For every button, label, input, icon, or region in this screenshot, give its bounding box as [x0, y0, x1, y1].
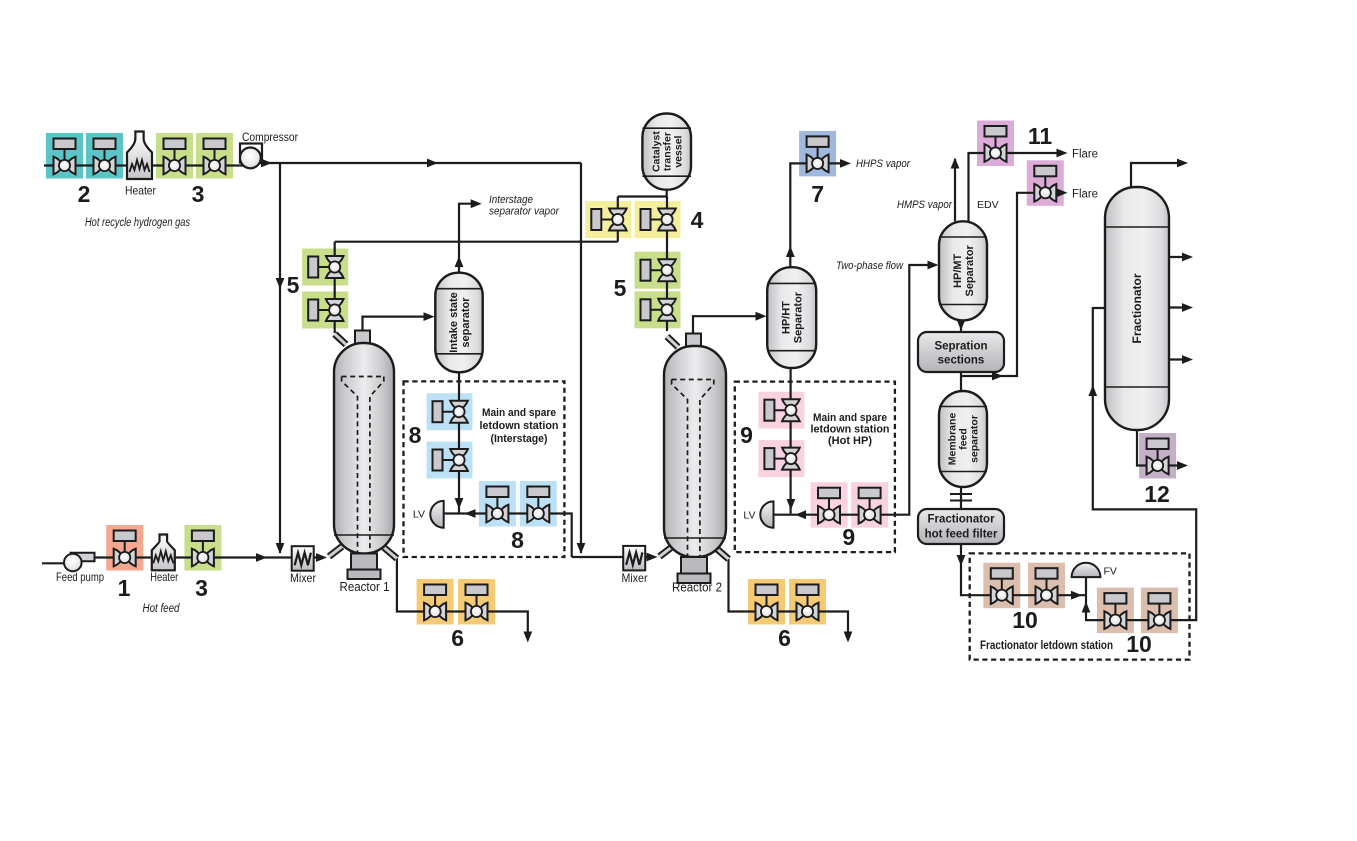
arrow valve-12 outlet: [1177, 461, 1188, 470]
reactor 2 internals dashed funnel: [672, 380, 714, 560]
valve 6b background: [458, 579, 495, 625]
svg-text:letdown station: letdown station: [480, 420, 559, 432]
pipe letdown-10 second row: [1086, 308, 1196, 620]
valve 4a background: [585, 201, 631, 238]
valve 9a background: [758, 392, 804, 429]
svg-text:Feed pump: Feed pump: [56, 570, 104, 584]
pipe HP/HT bottoms: [789, 368, 791, 514]
svg-text:10: 10: [1012, 607, 1038, 633]
pipe hydrogen branch 5 down to reactor-1 feed: [279, 163, 281, 553]
valve 1 background: [106, 525, 143, 571]
HP/HT separator vessel: [767, 267, 816, 368]
valve 4b: [641, 209, 676, 231]
svg-text:6: 6: [451, 625, 464, 651]
arrow hydrogen into reactor-2 feed: [577, 543, 586, 554]
pipe sepration sections to membrane separator: [960, 372, 962, 391]
pipe valve column to reactor 2: [666, 197, 668, 332]
pipe HP/MT bottoms to sepration sections: [960, 320, 962, 332]
fractionator hot feed filter box: [918, 509, 1004, 544]
svg-text:Heater: Heater: [150, 570, 178, 584]
svg-text:8: 8: [409, 422, 422, 448]
valve 2b: [94, 139, 116, 175]
arrow into intake separator: [424, 312, 435, 321]
valve 8b background: [427, 442, 473, 479]
pipe HMPS vapor riser: [954, 159, 956, 221]
reactor 2 bottom nozzle: [678, 557, 711, 583]
svg-text:3: 3: [195, 575, 208, 601]
svg-text:Two-phase flow: Two-phase flow: [836, 260, 904, 272]
valve 8a background: [427, 393, 473, 430]
pipe filter to letdown-10: [961, 544, 1086, 595]
svg-text:3: 3: [192, 181, 205, 207]
pipe reactor-2 feed line: [572, 556, 652, 558]
valve 7: [807, 136, 829, 172]
pipe valve-4 tee: [618, 195, 667, 197]
intake state separator vessel: [435, 273, 482, 373]
svg-text:HP/HT: HP/HT: [781, 301, 793, 334]
svg-text:Interstage: Interstage: [489, 194, 533, 206]
arrow two-phase flow: [928, 261, 939, 270]
nozzle reactor-1 bottoms outlet: [384, 548, 397, 559]
valve 7 background: [799, 131, 836, 177]
pipe letdown-9 header: [774, 265, 935, 515]
svg-text:separator vapor: separator vapor: [489, 206, 560, 218]
compressor: [240, 144, 262, 169]
svg-text:Separator: Separator: [793, 291, 805, 343]
filter tick upper: [950, 493, 972, 495]
valve 12 background: [1139, 433, 1176, 479]
pipe HP/HT overhead to valve 7: [790, 163, 806, 267]
svg-text:separator: separator: [460, 297, 472, 348]
svg-text:Intake state: Intake state: [448, 292, 460, 353]
valve 9d: [859, 488, 881, 524]
valve 8d: [527, 487, 549, 523]
arrow hydrogen header mid: [427, 159, 438, 168]
pipe quench drop to reactor 1: [334, 242, 336, 333]
valve 9c: [818, 488, 840, 524]
pipe interstage separator vapor line: [459, 204, 477, 273]
valve 2a background: [46, 133, 83, 179]
svg-text:Mixer: Mixer: [290, 571, 316, 585]
valve 5c background: [635, 252, 681, 289]
valve 3c background: [184, 525, 221, 571]
pipe intake separator bottoms: [458, 372, 460, 513]
valve 10c: [1104, 593, 1126, 629]
arrow flare 2: [1057, 188, 1068, 197]
svg-text:vessel: vessel: [672, 135, 684, 167]
valve 8d background: [520, 481, 557, 527]
valve 10b background: [1028, 563, 1065, 609]
valve 6c background: [748, 579, 785, 625]
valve 2b background: [86, 133, 123, 179]
pipe EDV riser to valve 11: [969, 153, 985, 221]
nozzle reactor-1 feed inlet: [329, 547, 342, 557]
svg-text:Fractionator letdown station: Fractionator letdown station: [980, 640, 1113, 652]
svg-text:HHPS vapor: HHPS vapor: [856, 158, 911, 170]
arrow hydrogen branch into feed 1: [276, 543, 285, 554]
svg-text:sections: sections: [938, 355, 985, 367]
fractionator letdown station dashed box: [970, 553, 1190, 659]
valve 6a: [424, 585, 446, 621]
svg-text:7: 7: [811, 181, 824, 207]
svg-text:Reactor 2: Reactor 2: [672, 581, 722, 595]
svg-text:Hot recycle hydrogen gas: Hot recycle hydrogen gas: [85, 217, 190, 229]
arrow valves-6 left outlet: [523, 632, 532, 643]
svg-text:(Hot HP): (Hot HP): [828, 435, 872, 447]
reactor 1 bottom nozzle: [348, 554, 381, 580]
svg-text:2: 2: [78, 181, 91, 207]
valve 8c: [486, 487, 508, 523]
valve 3b: [204, 139, 226, 175]
arrow feed into reactor 1: [316, 553, 327, 562]
nozzle reactor-2 bottoms outlet: [717, 549, 729, 560]
valve 5a: [308, 256, 343, 278]
svg-text:Flare: Flare: [1072, 189, 1098, 201]
valve 9d background: [851, 482, 888, 528]
pipe hydrogen branch down to reactor-2 feed: [580, 163, 582, 553]
reactor 1 internals dashed funnel: [342, 377, 384, 557]
valve 12: [1147, 439, 1169, 475]
arrow compressor discharge: [261, 159, 272, 168]
valve 6c: [756, 585, 778, 621]
pipe valve-12 outlet: [1169, 464, 1183, 466]
arrow HP/HT overhead riser: [786, 246, 795, 257]
valve 5b background: [302, 292, 348, 329]
svg-text:LV: LV: [743, 510, 755, 522]
filter tick lower: [950, 500, 972, 502]
valve 3b background: [196, 133, 233, 179]
valve 6d background: [789, 579, 826, 625]
arrow fractionator draw 3: [1182, 355, 1193, 364]
reactor 1 vessel: [334, 343, 394, 554]
svg-text:Hot feed: Hot feed: [143, 603, 181, 615]
reactor 2 vessel: [664, 346, 726, 557]
arrow fractionator overhead: [1177, 159, 1188, 168]
pipe valve-4a drop: [617, 197, 619, 242]
nozzle reactor-2 feed inlet: [660, 547, 673, 557]
svg-text:Fractionator: Fractionator: [1130, 273, 1144, 343]
svg-text:6: 6: [778, 625, 791, 651]
mixer 1: [290, 546, 316, 585]
pipe fractionator side draw 1: [1169, 256, 1188, 258]
valve 8b: [433, 449, 468, 471]
valve 3a background: [156, 133, 193, 179]
svg-text:LV: LV: [413, 509, 425, 521]
fractionator vessel: [1105, 187, 1169, 430]
arrow letdown-10 riser: [1082, 602, 1091, 613]
arrow HMPS vapor: [951, 158, 960, 169]
svg-text:1: 1: [118, 575, 131, 601]
svg-text:9: 9: [740, 422, 753, 448]
svg-text:Fractionator: Fractionator: [927, 514, 995, 526]
svg-text:hot feed filter: hot feed filter: [925, 529, 998, 541]
arrow into sepration sections: [957, 320, 966, 331]
pipe hot recycle hydrogen discharge header: [250, 162, 581, 164]
valve 10c background: [1097, 588, 1134, 634]
valve 5d background: [635, 291, 681, 328]
valve 8c background: [479, 481, 516, 527]
valve 6a background: [417, 579, 454, 625]
valve 3c: [192, 531, 214, 567]
arrow flare 1: [1057, 149, 1068, 158]
feed pump: [64, 553, 95, 572]
arrow HHPS vapor: [840, 159, 851, 168]
valve 5b: [308, 299, 343, 321]
valve 3a: [164, 139, 186, 175]
svg-text:HP/MT: HP/MT: [952, 253, 964, 288]
arrow letdown-8 drop: [455, 498, 464, 509]
arrow into HP/HT separator: [756, 312, 767, 321]
svg-text:8: 8: [511, 527, 524, 553]
FV dome letdown 10: [1072, 563, 1101, 577]
arrow fractionator feed riser: [1088, 385, 1097, 396]
pipe fractionator side draw 3: [1169, 358, 1188, 360]
valve 5c: [641, 259, 676, 281]
svg-text:Main and spare: Main and spare: [482, 407, 556, 419]
pipe reactor-1 overhead to intake separator: [363, 317, 431, 343]
arrow letdown-9 drop: [787, 499, 796, 510]
arrow letdown-10 row 1: [1071, 591, 1082, 600]
valve 9c background: [811, 482, 848, 528]
svg-text:12: 12: [1144, 481, 1170, 507]
LV dome letdown 9: [760, 501, 773, 527]
valve flare: [1034, 166, 1056, 202]
svg-text:11: 11: [1028, 123, 1053, 149]
arrow into letdown 10: [957, 555, 966, 566]
svg-text:4: 4: [691, 207, 704, 233]
arrow fractionator draw 2: [1182, 303, 1193, 312]
LV dome letdown 8: [430, 501, 443, 528]
arrow letdown-8 header: [465, 509, 476, 518]
pipe quench header y242: [335, 241, 618, 243]
valve flare background: [1027, 160, 1064, 206]
valve 10d background: [1141, 588, 1178, 634]
arrow interstage vapor: [471, 199, 482, 208]
svg-text:5: 5: [287, 272, 300, 298]
pipe fractionator side draw 2: [1169, 306, 1188, 308]
svg-text:5: 5: [614, 275, 627, 301]
svg-text:Heater: Heater: [125, 184, 156, 198]
nozzle reactor-1 quench inlet: [335, 334, 346, 345]
arrow interstage vapor riser: [455, 256, 464, 267]
pipe HHPS vapor outlet: [829, 162, 846, 164]
svg-text:Main and spare: Main and spare: [813, 412, 887, 424]
valve 8a: [433, 401, 468, 423]
svg-text:FV: FV: [1104, 566, 1117, 578]
letdown station 8 dashed box: [404, 381, 565, 557]
arrow hydrogen branch mid: [276, 278, 285, 289]
reactor 2 top nozzle: [686, 334, 701, 347]
svg-text:9: 9: [842, 524, 855, 550]
valve 5d: [641, 299, 676, 321]
pipe fractionator overhead: [1131, 163, 1183, 187]
pipe reactor-1 bottoms to valves 6: [397, 558, 528, 638]
mixer 2: [622, 546, 648, 585]
pipe valve-11 flare outlet: [1007, 152, 1063, 154]
valve 5a background: [302, 249, 348, 286]
arrow letdown-9 header: [795, 510, 806, 519]
svg-text:Mixer: Mixer: [622, 571, 648, 585]
valve 10b: [1036, 568, 1058, 604]
valve 10a: [991, 568, 1013, 604]
svg-text:Compressor: Compressor: [242, 130, 298, 144]
membrane feed separator vessel: [939, 391, 987, 487]
valve 9a: [764, 399, 799, 421]
pipe catalyst vessel stub: [666, 190, 668, 197]
svg-text:EDV: EDV: [977, 199, 999, 211]
valve 4a: [591, 209, 626, 231]
svg-text:Separator: Separator: [964, 244, 976, 296]
valve 6b: [466, 585, 488, 621]
valve 11: [985, 126, 1007, 162]
svg-text:(Interstage): (Interstage): [491, 433, 548, 445]
svg-text:Flare: Flare: [1072, 149, 1098, 161]
valve 10d: [1148, 593, 1170, 629]
nozzle reactor-2 quench inlet: [667, 337, 678, 348]
HP/MT separator vessel: [939, 221, 987, 320]
valve 4b background: [635, 201, 681, 238]
svg-text:10: 10: [1126, 631, 1152, 657]
valve 10a background: [983, 563, 1020, 609]
valve 11 background: [977, 121, 1014, 167]
heater hot feed line: [150, 535, 178, 585]
valve 9b background: [758, 440, 804, 477]
arrow flare branch: [992, 372, 1003, 381]
pipe membrane separator bottoms: [960, 487, 962, 509]
valve 2a: [54, 139, 76, 175]
pipe FV riser: [1085, 577, 1087, 595]
pipe fractionator bottoms to valve 12: [1137, 430, 1147, 466]
pipe flare valve outlet: [1056, 192, 1063, 194]
letdown station 9 dashed box: [735, 382, 895, 552]
arrow feed into reactor 2: [647, 553, 658, 562]
sepration sections box: [918, 332, 1004, 372]
heater hydrogen line: [125, 132, 156, 198]
reactor 1 top nozzle: [355, 331, 370, 344]
pipe flare valve riser: [961, 193, 1034, 376]
pipe hot recycle hydrogen suction header: [44, 164, 250, 166]
arrow fractionator draw 1: [1182, 253, 1193, 262]
svg-text:separator: separator: [969, 415, 981, 463]
svg-text:letdown station: letdown station: [811, 424, 890, 436]
pipe letdown-8 header: [444, 514, 572, 558]
pipe reactor-2 overhead to HP/HT separator: [693, 316, 761, 346]
pipe feed pump suction: [42, 562, 66, 564]
valve 1: [114, 531, 136, 567]
valve 9b: [764, 448, 799, 470]
svg-text:Sepration: Sepration: [934, 341, 987, 353]
pipe hot feed line to reactor 1: [90, 556, 324, 558]
valve 6d: [797, 585, 819, 621]
arrow valves-6 right outlet: [844, 632, 853, 643]
svg-text:Reactor 1: Reactor 1: [340, 580, 390, 594]
svg-text:HMPS vapor: HMPS vapor: [897, 199, 953, 211]
arrow feed line: [256, 553, 267, 562]
catalyst transfer vessel: [642, 114, 691, 190]
pipe reactor-2 bottoms to valves 6: [729, 559, 849, 638]
